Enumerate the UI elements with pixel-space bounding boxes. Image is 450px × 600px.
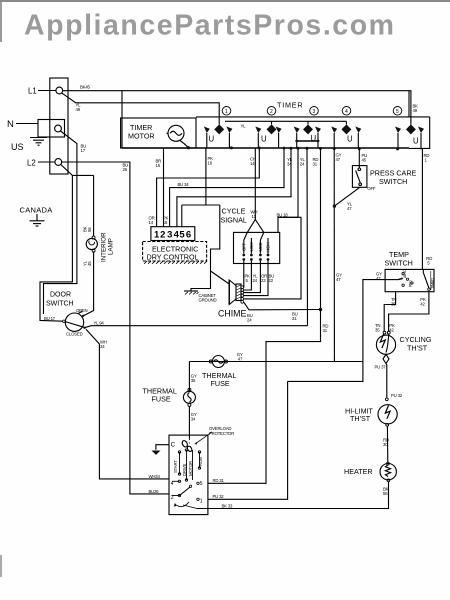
svg-text:5: 5 xyxy=(200,481,203,487)
wire BU26 L2 to motor pin2 xyxy=(62,162,169,494)
svg-text:OPEN: OPEN xyxy=(76,308,87,313)
labels cycle signal to chime wires xyxy=(245,274,275,284)
svg-text:SWITCH: SWITCH xyxy=(385,259,413,268)
svg-text:AUTO: AUTO xyxy=(403,269,407,278)
wire WH13 V-split into cycle signal xyxy=(244,220,264,241)
lamp to door switch open xyxy=(84,252,94,316)
svg-text:3: 3 xyxy=(313,109,316,115)
wire RD31 rail down to motor pin5 xyxy=(208,310,321,484)
press care switch S2 xyxy=(352,166,367,188)
svg-text:L1: L1 xyxy=(28,87,37,96)
svg-text:L2: L2 xyxy=(27,159,36,168)
svg-text:US: US xyxy=(11,142,24,152)
wire BK45 L1 to timer top xyxy=(63,91,411,125)
door switch S1 xyxy=(63,311,86,332)
node L2 xyxy=(38,159,62,166)
EDC bottom hatch xyxy=(144,261,207,264)
wire rail BR15 timer to EDC pin2 xyxy=(163,148,165,227)
svg-text:TH'ST: TH'ST xyxy=(407,344,428,353)
svg-text:BU 17: BU 17 xyxy=(44,316,56,321)
interior lamp IL1 xyxy=(86,236,97,252)
wire rail WH13 timer to cycle signal peak xyxy=(255,148,298,220)
svg-text:CHIME: CHIME xyxy=(218,309,246,319)
svg-text:YL 94: YL 94 xyxy=(94,320,105,325)
node N box xyxy=(16,120,65,138)
svg-text:U: U xyxy=(311,134,317,143)
wire rail PK16 timer to EDC pins 4 5 xyxy=(206,148,220,205)
svg-text:MOTOR: MOTOR xyxy=(188,461,193,476)
wire rail to temp switch left contacts xyxy=(288,280,386,382)
svg-text:TIMED: TIMED xyxy=(431,278,435,289)
svg-text:FUSE: FUSE xyxy=(152,395,171,404)
svg-text:1: 1 xyxy=(154,230,160,241)
wire BU17 N to rail xyxy=(44,131,77,314)
svg-text:N: N xyxy=(7,119,14,130)
wire GY47 horizontal thermal fuse run xyxy=(189,361,363,363)
svg-text:C: C xyxy=(171,443,176,449)
timer cam contact 3 xyxy=(294,121,321,148)
motor ground xyxy=(152,445,170,455)
wire PK42 temp switch to cycling thermostat xyxy=(389,292,429,332)
wire BK55 heater to motor BK33 run xyxy=(197,482,389,509)
wire rail left outer xyxy=(40,175,72,321)
overload protector OL1 xyxy=(181,432,212,452)
wire between thermal fuses GY35 xyxy=(188,362,190,392)
timer cam contact 4 xyxy=(331,121,361,148)
timer contact wire YL between cams xyxy=(225,120,346,122)
wire BU18 to cycle signal and chime xyxy=(244,217,302,299)
svg-text:PU 32: PU 32 xyxy=(391,393,403,398)
wire hi-limit to heater xyxy=(387,426,390,465)
svg-text:2: 2 xyxy=(270,109,273,115)
wire timer to EDC pin4 xyxy=(177,148,291,227)
svg-text:OFF: OFF xyxy=(367,186,376,191)
ground CANADA xyxy=(30,214,45,226)
svg-text:CANADA: CANADA xyxy=(20,206,53,215)
svg-text:SWITCH: SWITCH xyxy=(379,177,407,186)
wire rail RD1 timer to temp switch xyxy=(421,148,423,269)
svg-text:4: 4 xyxy=(171,481,174,487)
svg-text:PU 37: PU 37 xyxy=(375,365,387,370)
svg-text:BK45: BK45 xyxy=(80,85,91,90)
cycle signal position labels xyxy=(241,241,270,252)
svg-text:DOOR: DOOR xyxy=(50,292,71,299)
lamp feed wire xyxy=(93,175,95,236)
motor switch contacts xyxy=(172,480,199,508)
wire CH14 timer to EDC pin1 xyxy=(157,148,260,227)
svg-text:DRIVE: DRIVE xyxy=(182,464,187,476)
svg-text:U: U xyxy=(347,135,353,144)
svg-text:1: 1 xyxy=(225,109,228,115)
ground US xyxy=(30,138,47,146)
svg-text:START: START xyxy=(173,460,178,473)
node L1 xyxy=(38,87,63,94)
svg-text:LOW: LOW xyxy=(249,241,254,251)
wire BU34 timer to EDC pin3 xyxy=(170,148,284,227)
svg-text:WH34: WH34 xyxy=(149,474,161,479)
wire PU37 cycling to hi-limit xyxy=(385,364,388,401)
svg-text:1: 1 xyxy=(200,499,203,505)
temp switch timed-dry blade xyxy=(423,269,431,290)
svg-text:U: U xyxy=(413,137,419,146)
svg-text:3: 3 xyxy=(167,230,172,241)
cabinet ground symbol xyxy=(184,291,199,295)
svg-text:TH'ST: TH'ST xyxy=(350,414,371,423)
wires cycle signal to chime pins xyxy=(244,261,269,296)
svg-text:CLOSED: CLOSED xyxy=(66,332,83,337)
svg-text:MED: MED xyxy=(258,242,263,251)
svg-text:CYCLE: CYCLE xyxy=(222,207,246,216)
svg-text:U: U xyxy=(261,135,267,144)
svg-text:RUN: RUN xyxy=(198,457,203,466)
svg-text:FUSE: FUSE xyxy=(211,379,230,388)
wire L2 to lamp tee xyxy=(61,165,94,176)
svg-text:OFF: OFF xyxy=(241,242,246,251)
timer terminal circles 1-5 xyxy=(222,107,402,116)
heater HE1 xyxy=(380,464,396,482)
electronic dry control EDC dashed box xyxy=(143,242,207,262)
motor M1 box xyxy=(169,435,208,514)
svg-text:DRY CONTROL: DRY CONTROL xyxy=(147,253,199,262)
wire PU32 motor pin1 to temp return xyxy=(208,381,288,499)
svg-text:4: 4 xyxy=(345,109,348,115)
wire YL94 door switch to rail xyxy=(85,326,308,328)
terminal block TB1 xyxy=(50,78,68,174)
wire WH34 door switch to motor pin4 xyxy=(86,329,169,479)
svg-text:GROUND: GROUND xyxy=(199,298,217,303)
svg-text:BU 34: BU 34 xyxy=(178,182,190,187)
timer cam contact 5 xyxy=(395,124,424,149)
wire press care to GY47 rail junction xyxy=(333,187,360,208)
timer motor TM xyxy=(167,125,190,149)
wire EDC pin5 stub xyxy=(182,205,206,227)
wire rail PU45 timer to press care switch xyxy=(358,149,360,168)
svg-text:BU 18: BU 18 xyxy=(277,212,289,217)
timer T1 enclosure xyxy=(122,91,430,149)
junction dots on timer bus xyxy=(230,146,399,150)
hi-limit thermostat TH2 xyxy=(378,405,397,427)
temp switch contacts xyxy=(385,272,413,286)
svg-text:6: 6 xyxy=(186,230,191,241)
wire rail YL24 timer to YL94 corner xyxy=(306,148,309,325)
wire YL49 L1 to timer contact 1 xyxy=(62,93,220,125)
svg-text:2: 2 xyxy=(160,230,165,241)
cycle signal box xyxy=(234,232,280,263)
svg-text:BU26: BU26 xyxy=(149,489,160,494)
svg-text:5: 5 xyxy=(179,230,185,241)
cycling thermostat TH1 xyxy=(376,331,395,363)
timer motor box xyxy=(121,118,196,148)
wire BU24 chime to RD31 rail junction xyxy=(244,302,323,311)
timer cam contact 2 xyxy=(255,121,281,148)
thermal fuse F1 upper xyxy=(209,356,227,368)
svg-text:BK 33: BK 33 xyxy=(222,503,234,508)
svg-text:MOTOR: MOTOR xyxy=(128,132,155,141)
wire rail GY47 timer to press care junction xyxy=(333,149,335,362)
EDC pin numbers 1 2 3 4 5 6 xyxy=(154,230,191,241)
timer cam contact 1 xyxy=(204,124,233,147)
motor internal windings xyxy=(178,449,200,481)
svg-text:5: 5 xyxy=(396,109,399,115)
svg-text:2: 2 xyxy=(171,495,174,501)
svg-text:HIGH: HIGH xyxy=(266,242,271,252)
thermal fuse F2 lower xyxy=(183,388,195,406)
svg-text:YL: YL xyxy=(241,123,247,128)
wire rail RD31 timer to chime junction xyxy=(320,148,322,309)
svg-text:INTERIOR: INTERIOR xyxy=(101,232,108,262)
wire EDC area to chime and cabinet ground xyxy=(191,205,229,291)
svg-text:U: U xyxy=(209,135,215,144)
svg-text:PROTECTOR: PROTECTOR xyxy=(209,431,234,436)
wire GY34 lower fuse to motor top xyxy=(188,406,190,438)
svg-text:PU 32: PU 32 xyxy=(213,494,225,499)
EDC terminal box pins 1 2 3 4 5 6 xyxy=(151,227,195,241)
svg-text:AppliancePartsPros.com: AppliancePartsPros.com xyxy=(24,10,394,42)
cycle signal selector contacts xyxy=(244,238,268,254)
svg-text:RD 31: RD 31 xyxy=(213,478,225,483)
svg-text:REG: REG xyxy=(409,280,413,287)
wire TN35 temp switch to cycling thermostat xyxy=(384,292,395,332)
svg-text:SIGNAL: SIGNAL xyxy=(221,216,247,225)
svg-text:HEATER: HEATER xyxy=(344,467,373,476)
svg-text:SWITCH: SWITCH xyxy=(46,301,74,308)
svg-text:LAMP: LAMP xyxy=(108,238,115,255)
chime CH1 speaker xyxy=(229,280,243,305)
temp switch S3 box xyxy=(385,269,434,291)
svg-text:TIMER: TIMER xyxy=(277,101,303,110)
